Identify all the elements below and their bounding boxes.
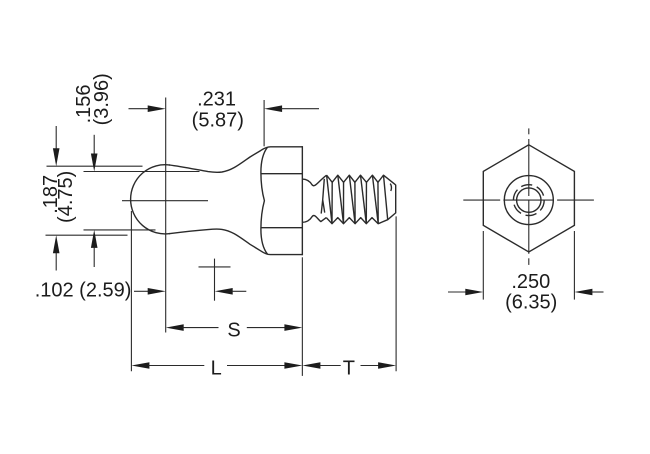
svg-text:.231: .231: [197, 88, 236, 110]
svg-text:.250: .250: [511, 271, 550, 293]
svg-text:.102 (2.59): .102 (2.59): [35, 280, 132, 302]
dim S: [166, 324, 184, 331]
lower body contour: ball tangent to neck to hex flange: [169, 229, 302, 254]
hex flange face edge lines: [261, 173, 302, 175]
dim .102 (2.59) leaders: [134, 290, 150, 292]
ball end of stud (side view): [131, 165, 170, 234]
dim L: [131, 362, 149, 369]
hex end view outline: [483, 145, 574, 252]
thread runout at neck: [321, 179, 325, 214]
undercut neck top: [302, 175, 326, 186]
thread end chamfer details: [390, 184, 391, 191]
svg-text:(3.96): (3.96): [91, 73, 113, 125]
extension line thread end: [395, 216, 397, 371]
center cross mark: [199, 266, 231, 268]
extension line hex right face: [301, 257, 303, 376]
dim .231 (5.87) horizontal: [129, 108, 151, 110]
dim T: [302, 362, 320, 369]
thread crest outline bottom: [326, 213, 395, 224]
thread helix flank lines: [327, 175, 332, 224]
hex flange chamfer arcs (left): [261, 147, 268, 254]
dim .250 extension lines: [482, 231, 484, 300]
ball horizontal centerline: [122, 200, 208, 202]
svg-text:T: T: [343, 357, 355, 379]
extension line ball bottom (.187): [46, 234, 128, 236]
dim .250 leaders: [448, 291, 467, 293]
undercut neck bottom: [302, 215, 326, 222]
hex view horizontal centerline: [463, 199, 500, 201]
extension line neck bottom (.156): [84, 229, 156, 231]
hex flange right face: [301, 146, 303, 255]
svg-text:(5.87): (5.87): [192, 109, 244, 131]
upper body contour: ball tangent to neck to hex flange: [169, 147, 302, 172]
extension line neck top (.156): [84, 171, 200, 173]
svg-text:S: S: [227, 319, 240, 341]
hex view vertical centerline: [528, 128, 530, 134]
dim .187 (4.75) vertical: [55, 126, 57, 151]
thread crest outline top: [327, 175, 396, 185]
dim .156 (3.96) vertical: [93, 135, 95, 156]
extension line ball top (.187): [47, 165, 143, 167]
extension line hex left face (.231): [263, 100, 265, 146]
end face circle: [517, 188, 541, 212]
vertical centerline through ball center: [165, 98, 167, 333]
extension line ball left edge: [130, 211, 132, 371]
thread root circle (dashed): [513, 185, 544, 216]
svg-text:(4.75): (4.75): [55, 171, 77, 223]
stud end face: [395, 185, 397, 214]
svg-text:(6.35): (6.35): [505, 292, 557, 314]
svg-text:L: L: [211, 358, 222, 380]
chamfer circle (thread major): [504, 176, 553, 225]
